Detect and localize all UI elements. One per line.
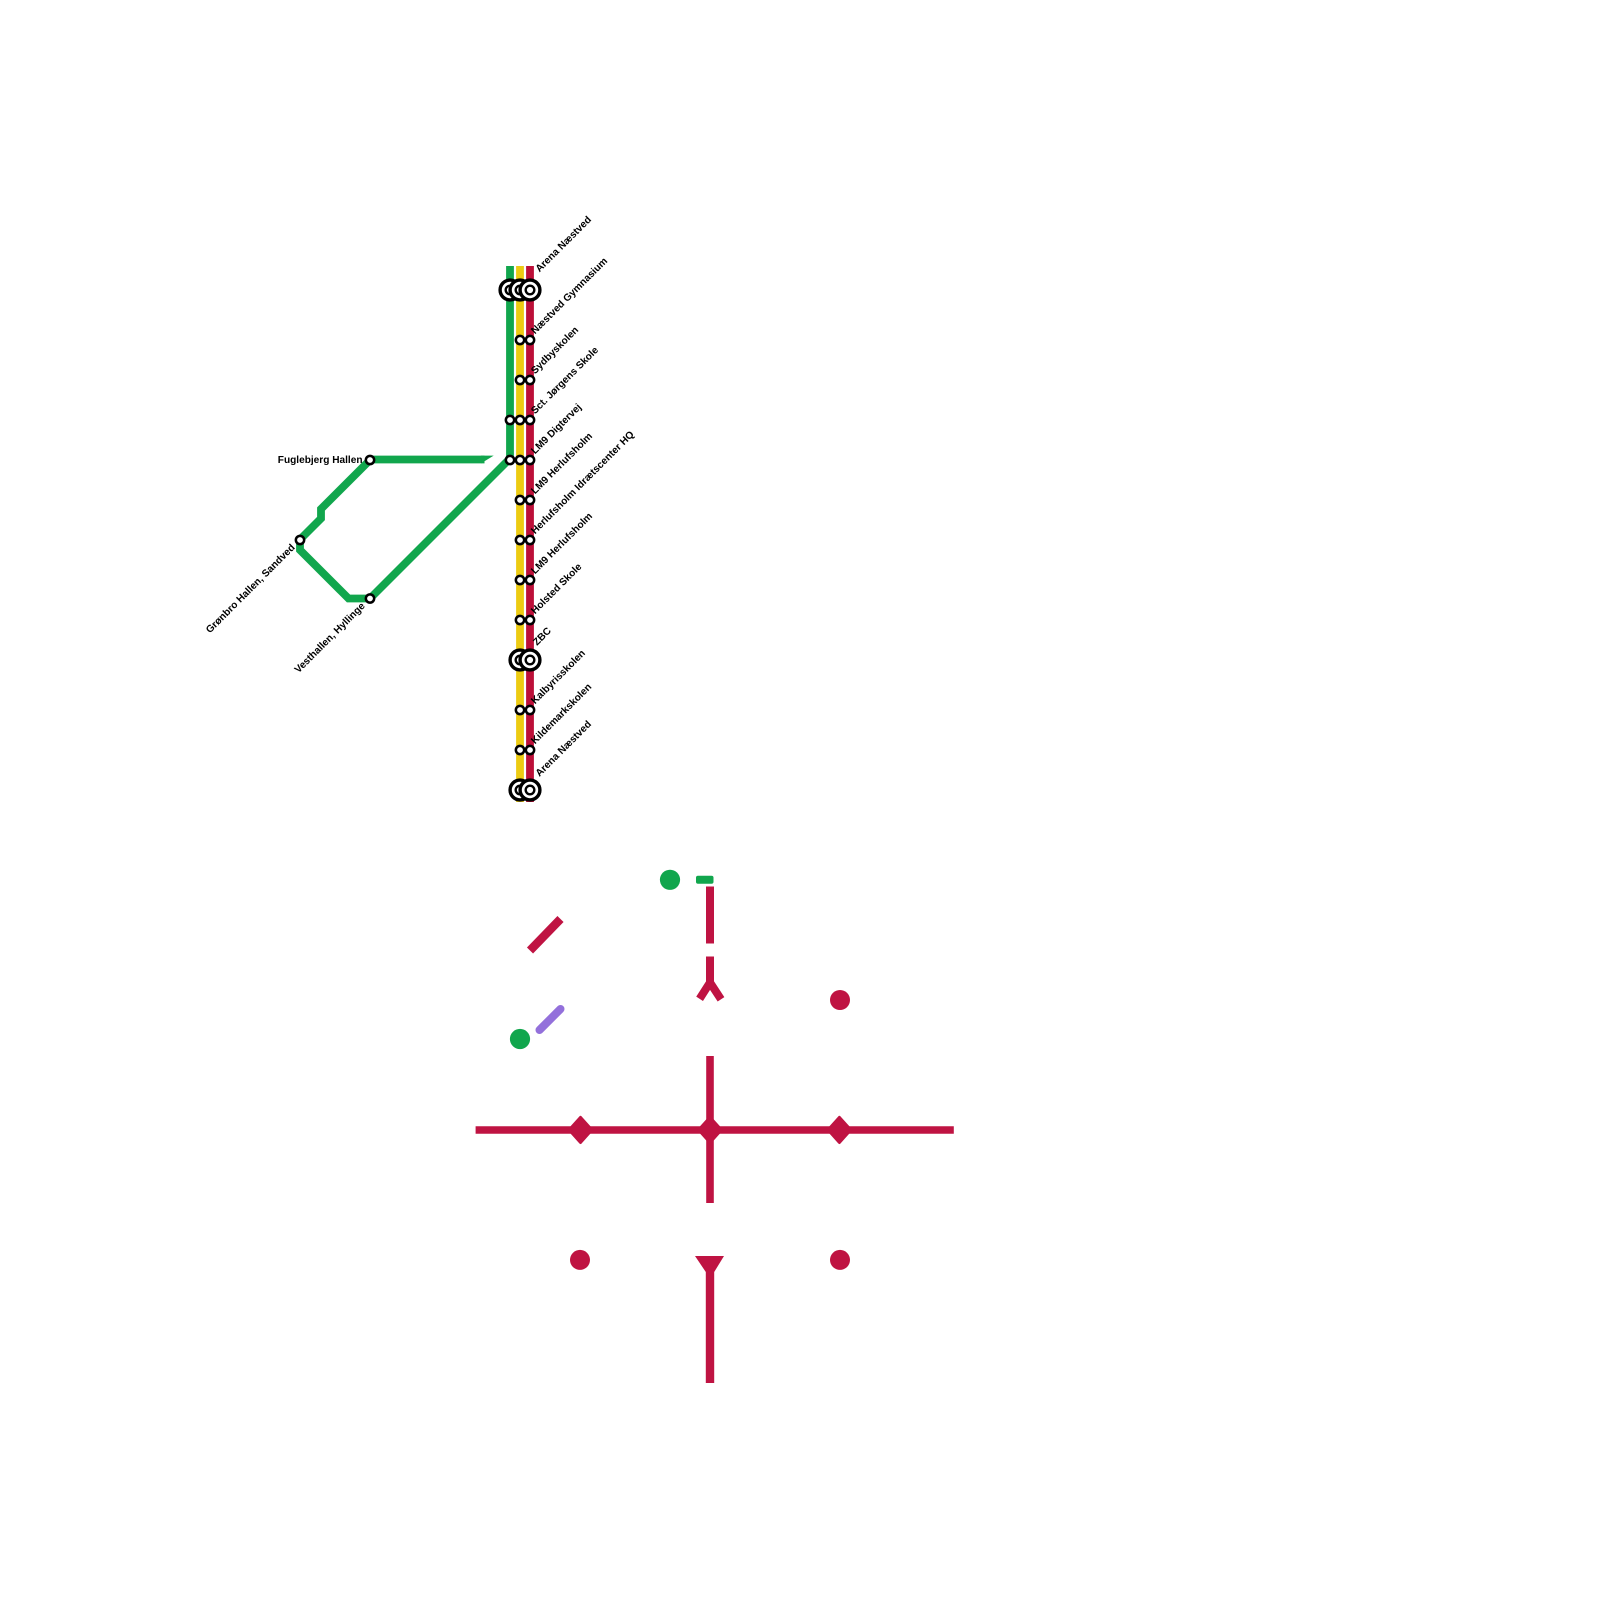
svg-text:Grønbro Hallen, Sandved: Grønbro Hallen, Sandved bbox=[204, 542, 297, 635]
svg-text:Sct. Jørgens Skole: Sct. Jørgens Skole bbox=[529, 345, 601, 417]
svg-text:Vesthallen, Hyllinge: Vesthallen, Hyllinge bbox=[293, 601, 368, 676]
svg-text:Fuglebjerg Hallen: Fuglebjerg Hallen bbox=[278, 455, 363, 466]
svg-text:Arena Næstved: Arena Næstved bbox=[534, 214, 594, 274]
svg-text:ZBC: ZBC bbox=[531, 625, 554, 648]
